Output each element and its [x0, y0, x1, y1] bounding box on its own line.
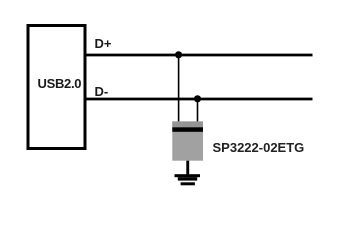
svg-text:D-: D-	[95, 84, 109, 99]
USB2.0 connector block	[28, 26, 85, 149]
svg-text:D+: D+	[95, 36, 112, 51]
wire D- junction to U1 pin 2	[197, 99, 199, 122]
wire D-	[87, 98, 313, 101]
U1 top cap	[172, 121, 203, 127]
U1 ground lead	[186, 161, 189, 175]
junction node on D+	[175, 51, 182, 58]
svg-text:USB2.0: USB2.0	[38, 76, 82, 91]
wire D+	[87, 54, 313, 57]
U1 polarity band	[172, 127, 203, 132]
svg-text:SP3222-02ETG: SP3222-02ETG	[213, 140, 305, 155]
ESD suppressor U1 body	[172, 121, 203, 160]
wire D+ junction to U1 pin 1	[178, 55, 180, 122]
junction node on D-	[194, 95, 201, 102]
ground	[175, 174, 201, 185]
